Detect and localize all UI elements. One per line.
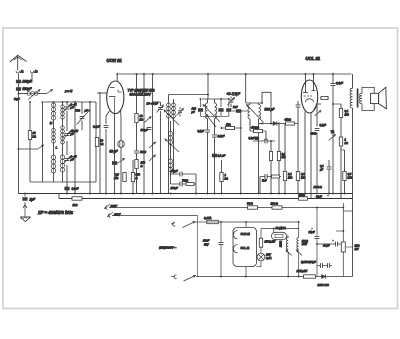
bus y198.5 (59, 198, 353, 200)
label ZF frequency (37, 210, 74, 215)
switch contact pos N (46, 90, 53, 95)
speaker connection bottom (362, 104, 374, 111)
top bus line y74 (119, 73, 352, 75)
svg-text:55 Ω: 55 Ω (247, 202, 253, 206)
svg-text:pF: pF (70, 158, 74, 162)
coil column right (M,L windings) (60, 101, 64, 182)
wire x90 (89, 101, 91, 193)
svg-text:A1: A1 (20, 71, 25, 74)
switch contact below UCL (315, 111, 322, 117)
resistor 550 Ohm (131, 160, 140, 194)
barretter 100 Ohm 11W (297, 221, 309, 277)
capacitor 5nF low (262, 174, 267, 182)
tube UCH11 top pin (116, 73, 118, 81)
svg-text:6A/U.DDL110V: 6A/U.DDL110V (130, 92, 152, 96)
svg-text:11W: 11W (302, 242, 308, 246)
switch contact TA (329, 130, 336, 141)
coil column left (M,L windings) (51, 101, 56, 182)
svg-text:2000 Ω: 2000 Ω (313, 185, 322, 189)
svg-text:0,1: 0,1 (345, 109, 349, 113)
svg-text:UCL 11: UCL 11 (241, 246, 250, 250)
osc2 coil left (248, 103, 250, 131)
resistor 250 Ohm 1W (259, 238, 276, 247)
vertical B+ x343.3 (342, 203, 344, 277)
label heater UCL 11 (241, 246, 250, 250)
svg-text:μF: μF (319, 167, 323, 171)
fuse 0,25A (204, 216, 218, 224)
osc2 coil right (259, 103, 261, 194)
capacitor blob x114 (112, 161, 117, 165)
wire band block bottom y182 (30, 181, 96, 183)
svg-text:270pF: 270pF (170, 186, 179, 190)
capacitor 100pF x298 (296, 104, 301, 107)
svg-text:40 μF: 40 μF (323, 244, 330, 248)
svg-text:220Ω: 220Ω (280, 241, 283, 248)
variable arrow osc top (164, 110, 179, 125)
resistor 1kOhm in bus2 (72, 197, 82, 207)
wire UCL grid stub (317, 103, 321, 105)
switch contact x152 low (149, 155, 156, 161)
terminal mains 2 (108, 212, 114, 217)
wire band block top y102 (41, 101, 96, 103)
capacitor 0,1uF x329 (319, 160, 331, 194)
svg-text:0,5: 0,5 (348, 172, 352, 176)
lower mains line (171, 275, 353, 281)
label 500pF (265, 108, 276, 112)
tube UCH11 grid pin (97, 92, 107, 94)
svg-text:(110)/220V ~: (110)/220V ~ (159, 246, 176, 250)
speaker magnet (371, 93, 379, 103)
wire IF1 cap tie (201, 115, 229, 117)
capacitor 0,1uF (M) (249, 136, 276, 143)
wire tap y149 (19, 148, 38, 150)
heater box (233, 228, 257, 267)
wire x30 (29, 101, 31, 182)
lamp 18V (257, 247, 265, 261)
tube UCL11 top pin 2 (312, 73, 316, 90)
mains 2 line y215.5 (112, 215, 198, 217)
variable arrow on input coil (28, 90, 40, 100)
switch contact x152 mid (149, 142, 156, 148)
resistor 1kOhm mid (220, 160, 228, 194)
tube UCL11 top pin 1 (303, 73, 308, 92)
wire x100 (99, 92, 101, 194)
capacitor 0,1uF at bus (59, 184, 79, 199)
svg-text:0,1: 0,1 (320, 164, 324, 168)
switch contact x148 (145, 117, 152, 123)
svg-text:kΩ: kΩ (100, 142, 103, 146)
svg-text:5nF: 5nF (262, 179, 267, 183)
wire x266 (265, 131, 267, 141)
capacitor 270pF upper (170, 169, 197, 176)
svg-text:1kΩ: 1kΩ (73, 203, 78, 207)
wire y244 to 2k (316, 243, 343, 245)
diode detector (261, 121, 284, 125)
svg-text:0,1μF: 0,1μF (72, 187, 79, 191)
ground capacitor 1uF (22, 193, 36, 202)
svg-text:100pF: 100pF (141, 128, 149, 132)
wire x144 (143, 73, 145, 193)
resistor 100 Ohm (271, 202, 283, 210)
wire x152.6 (152, 73, 154, 193)
trimmer 3-45pF lower (64, 155, 77, 164)
capacitor 50uF electrolytic (110, 110, 125, 194)
resistor 10kOhm (95, 138, 103, 147)
svg-text:5kV: 5kV (204, 242, 209, 246)
svg-text:1μF: 1μF (30, 198, 36, 202)
wire y228.6 (261, 229, 299, 239)
input coil with wire (19, 92, 47, 96)
resistor 125 Ohm 1W (297, 269, 316, 278)
switch link vertical (197, 216, 199, 277)
wire PL81 right (287, 236, 289, 238)
svg-text:50μF: 50μF (14, 98, 20, 101)
tube UCL11 cathode (306, 99, 314, 102)
wire transformer top (352, 74, 354, 88)
svg-text:25μF: 25μF (308, 230, 315, 234)
svg-text:MΩ: MΩ (345, 112, 349, 116)
resistor on y176.5 (272, 175, 280, 178)
bus chassis y193.5 (19, 193, 353, 195)
svg-text:pF: pF (84, 109, 88, 113)
wire y176.5 cluster (260, 176, 281, 178)
wire x67 (66, 101, 68, 193)
wire x341 (332, 103, 341, 198)
B+ line y207.5 (109, 207, 343, 209)
ground arrow (23, 202, 27, 217)
osc coil low winding (168, 159, 172, 184)
svg-text:pF: pF (70, 106, 74, 110)
svg-text:3,1 μF: 3,1 μF (218, 154, 226, 158)
resistor 0,1MOhm x279 (277, 123, 285, 195)
svg-text:150: 150 (141, 161, 146, 165)
resistor 0,5MOhm x344.5 (341, 150, 352, 194)
label mains voltage (159, 246, 176, 250)
wire pivot to fuse (196, 221, 207, 223)
wire heater box to lower line (245, 267, 247, 278)
tube UCH11 anode (110, 87, 115, 89)
capacitor IF1 outer (226, 98, 231, 116)
label L (56, 146, 58, 150)
label tube type 2 (130, 92, 152, 96)
svg-text:200pF: 200pF (22, 80, 33, 84)
antenna (10, 55, 27, 70)
capacitor 25nF mains (202, 221, 223, 277)
svg-text:500: 500 (76, 109, 81, 113)
capacitor 0,1uF blob x214 (212, 154, 226, 158)
svg-text:270pF: 270pF (170, 169, 179, 173)
svg-text:0,1A: 0,1A (266, 256, 272, 260)
tube UCH11 grids (118, 90, 122, 93)
svg-text:pF: pF (191, 110, 195, 114)
osc coil pair (167, 95, 176, 194)
speaker connection top (362, 87, 374, 93)
svg-text:1kΩ: 1kΩ (226, 123, 231, 127)
resistor 2kOhm 1W (341, 242, 359, 252)
svg-text:0,1μF: 0,1μF (320, 123, 327, 127)
svg-text:50μF: 50μF (316, 195, 322, 199)
capacitor 270pF lower (170, 182, 183, 190)
trimmer 15+45pF (64, 129, 79, 139)
svg-text:18V: 18V (266, 253, 271, 257)
svg-text:5nF: 5nF (233, 105, 238, 109)
rectifier diode B250 (318, 274, 330, 287)
heater UCL winding (233, 245, 237, 253)
svg-text:47kΩ: 47kΩ (285, 118, 291, 122)
label tube type 1 (128, 88, 155, 92)
output transformer core (357, 89, 359, 108)
svg-text:kΩ: kΩ (140, 117, 143, 121)
switch contact upper (171, 222, 195, 228)
tube UCL11 envelope (301, 80, 317, 113)
capacitor 500pF (16, 84, 33, 92)
wire x75 (74, 101, 76, 193)
resistor 0,5MOhm (114, 173, 126, 182)
label lamp (266, 253, 272, 260)
svg-text:UCL 11: UCL 11 (306, 56, 321, 61)
trimmer 5-7.5pF (227, 92, 241, 107)
variable arrow osc mid (165, 139, 179, 152)
wire x298 (297, 101, 299, 194)
label pos N (64, 89, 73, 93)
svg-text:pF: pF (70, 132, 74, 136)
svg-text:1: 1 (345, 138, 347, 142)
svg-text:100 Ω: 100 Ω (271, 202, 278, 206)
wire antenna column (14, 88, 20, 194)
svg-text:1: 1 (225, 173, 227, 177)
output transformer secondary (359, 93, 362, 103)
svg-text:5μF/30V/5μF: 5μF/30V/5μF (301, 260, 316, 264)
wire osc2 riser (245, 73, 247, 103)
svg-text:Ω: Ω (141, 164, 143, 168)
svg-text:A2: A2 (34, 71, 39, 74)
wire osc coil top y94.5 (169, 94, 209, 96)
svg-text:MΩ: MΩ (114, 176, 118, 180)
barretter 220 Ohm (280, 238, 292, 278)
svg-text:100Ω: 100Ω (302, 239, 308, 243)
wire x196 (195, 174, 197, 194)
wire A2 to A1 (19, 73, 33, 83)
svg-text:0,1μF(M): 0,1μF(M) (249, 136, 259, 140)
tube UCH11 cathode (109, 97, 116, 114)
resistor 0,1MOhm (283, 124, 292, 194)
capacitor IF1 right (218, 98, 223, 116)
svg-text:40: 40 (140, 114, 143, 118)
wire primary down (352, 108, 354, 277)
switch contact band (37, 145, 44, 150)
svg-text:15: 15 (33, 131, 36, 135)
svg-text:0,1μF: 0,1μF (198, 129, 205, 133)
capacitor 0,1uF x333 (331, 81, 344, 86)
output transformer primary (350, 88, 352, 108)
capacitor 25uF electrolytic (308, 207, 320, 277)
svg-text:25nF: 25nF (202, 239, 209, 243)
resistor 100 Ohm in bus2 (299, 193, 308, 200)
svg-text:0,5: 0,5 (115, 173, 119, 177)
wire x96 (95, 102, 97, 182)
resistor 150 Ohm (135, 160, 146, 169)
label 50uF cathode (316, 195, 329, 199)
svg-text:UCH 11: UCH 11 (107, 58, 123, 63)
trimmer 15-40pF (147, 102, 164, 194)
svg-text:+5–7,5pF: +5–7,5pF (227, 92, 241, 96)
capacitors 5uF/30V/5uF (301, 260, 332, 268)
switch contact x121 (117, 159, 125, 164)
label UCH 11 (107, 58, 123, 63)
wire IF1 riser (207, 73, 209, 99)
wire stub y211 (343, 210, 352, 212)
heater UCH winding (233, 231, 237, 239)
label M (50, 121, 53, 125)
label 2000 Ohm (313, 185, 322, 189)
svg-text:5000: 5000 (140, 150, 146, 154)
osc coil mid winding (168, 121, 172, 159)
svg-text:125Ω,1W: 125Ω,1W (297, 269, 308, 273)
svg-text:kΩ: kΩ (225, 176, 228, 180)
resistor 1kOhm y128 (221, 123, 242, 130)
IF1 coil left (205, 99, 207, 194)
tube UCH11 envelope (107, 81, 124, 114)
wire IF1 top (202, 98, 229, 100)
wire osc2 top (246, 102, 262, 104)
capacitor 200pF (16, 74, 33, 84)
label 0,1uF near UCL (320, 123, 327, 127)
ground symbol (20, 217, 30, 222)
wire heater box riser (245, 221, 247, 227)
tube UCL11 pins down (305, 112, 311, 199)
terminal A1 (16, 71, 24, 74)
svg-text:50 μF: 50 μF (110, 150, 119, 154)
fuse line y222 (218, 221, 298, 223)
wire x114.6 down (114, 113, 116, 193)
svg-text:100Ω: 100Ω (299, 193, 305, 197)
svg-text:0,25A: 0,25A (204, 216, 211, 220)
svg-text:B250 C90: B250 C90 (318, 283, 330, 287)
svg-text:kΩ: kΩ (345, 141, 348, 145)
resistor 0,1MOhm x341 (339, 109, 348, 118)
svg-text:160: 160 (192, 107, 197, 111)
resistor 0,3MOhm (296, 172, 305, 181)
wire x136.5 (136, 73, 138, 193)
wire diode left (259, 123, 263, 125)
trimmer at osc coil (177, 107, 184, 117)
speaker cone (379, 87, 387, 109)
capacitor 0,1uF x214 (212, 134, 225, 138)
capacitor 5000 x317 (311, 104, 320, 194)
svg-text:MΩ: MΩ (348, 175, 352, 179)
resistor 1kOhm x341 (339, 137, 348, 146)
capacitor 5nF y111 (232, 105, 248, 113)
capacitor 100pF (141, 127, 152, 132)
svg-text:ZF = 468/473 kHz: ZF = 468/473 kHz (37, 210, 74, 215)
svg-text:0,1μF: 0,1μF (93, 125, 100, 129)
resistor 47kOhm (284, 118, 298, 126)
variable arrow osc2 (247, 105, 264, 123)
capacitor 0,1uF x207 (198, 129, 210, 133)
svg-text:pos N: pos N (64, 89, 73, 93)
svg-text:kΩ: kΩ (33, 134, 36, 138)
resistor 70kOhm (171, 179, 197, 186)
capacitor 0,1uF x106 (93, 111, 110, 194)
tube UCL11 grids (304, 95, 313, 97)
resistor 55 Ohm (247, 202, 258, 210)
label heater UCH 11 (241, 232, 251, 236)
resistor 40kOhm (135, 114, 143, 123)
svg-text:10: 10 (100, 139, 103, 143)
svg-text:0,1: 0,1 (288, 172, 292, 176)
capacitor 50uF electrolytic (323, 240, 338, 248)
wire heater return to lamp (257, 261, 262, 266)
svg-text:2kΩ: 2kΩ (354, 244, 360, 248)
svg-text:MΩ: MΩ (288, 175, 292, 179)
wire x260 (259, 177, 261, 194)
svg-text:0,1μF: 0,1μF (336, 81, 343, 85)
svg-text:UCH 11: UCH 11 (241, 232, 251, 236)
wire IF2 secondary riser (261, 92, 272, 124)
capacitor 160pF (191, 98, 204, 116)
svg-text:L: L (56, 146, 58, 150)
resistor 15kOhm (28, 131, 36, 140)
svg-text:TA: TA (331, 130, 335, 134)
svg-text:500 pF: 500 pF (265, 108, 276, 112)
ballast tube PL(A)81 (272, 226, 287, 240)
wire stub y231 (336, 230, 343, 232)
svg-text:0,1μF: 0,1μF (218, 134, 225, 138)
wire y102 stub (153, 101, 161, 103)
svg-text:400kΩ: 400kΩ (251, 126, 259, 130)
trimmer 3-45pF upper (64, 102, 77, 112)
svg-text:500pF: 500pF (23, 87, 33, 91)
capacitor 5000pF x136 (134, 150, 146, 154)
svg-text:70kΩ: 70kΩ (182, 179, 188, 183)
svg-text:1W: 1W (355, 247, 359, 251)
terminal A2 (30, 71, 38, 74)
wire x240.8 down (240, 110, 242, 194)
resistor 400kOhm (250, 126, 266, 133)
label 110V (114, 212, 121, 216)
tuning capacitor 500pF (76, 102, 91, 130)
IF1 coil right (215, 99, 217, 194)
terminal mains 1 (105, 204, 111, 209)
label UCL 11 (306, 56, 321, 61)
resistor 1,2kOhm x271 (269, 140, 272, 194)
resistor near UCL grid (320, 97, 329, 100)
label 220V (110, 204, 119, 208)
svg-text:5000: 5000 (311, 132, 317, 136)
wire x333 (332, 73, 334, 193)
svg-text:PL(A)81: PL(A)81 (276, 226, 287, 230)
junction dots bus1 (66, 193, 345, 195)
wire x42.5 (42, 102, 44, 182)
svg-text:M: M (50, 121, 53, 125)
variable arrow IF1 (203, 105, 220, 128)
